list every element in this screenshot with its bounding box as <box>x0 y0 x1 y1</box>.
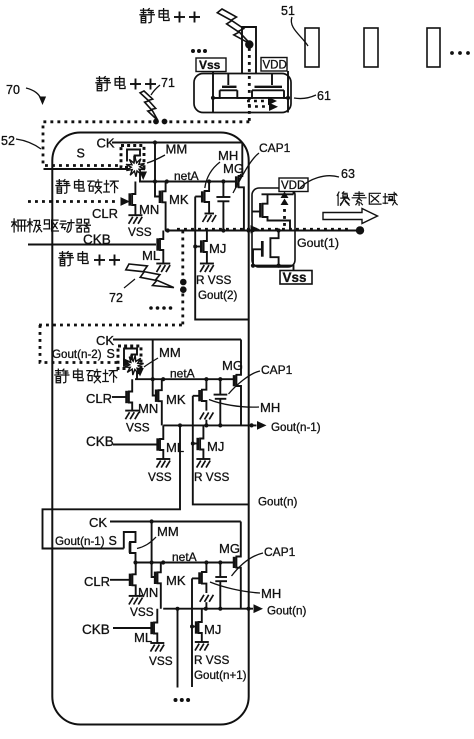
Vss box label <box>196 58 226 72</box>
svg-text:Gout(n+1): Gout(n+1) <box>194 669 247 682</box>
label 70 with curved arrow <box>6 83 46 105</box>
ellipsis dots above Vss box <box>191 49 207 53</box>
ground under MJ stage2 <box>196 458 210 460</box>
ground VSS under MN stage3 <box>129 596 154 619</box>
svg-text:Vss: Vss <box>283 270 307 285</box>
pixel column electrodes 51 <box>305 28 440 67</box>
upper transistor block 63 <box>252 192 294 231</box>
lightning bolt 72 <box>126 264 174 288</box>
ESD dotted path 52 (top rectangle) <box>43 122 249 166</box>
svg-text:MJ: MJ <box>204 622 221 637</box>
transistor ML stage2 <box>160 425 163 458</box>
CK drop wire to MK gate stage1 <box>153 140 160 196</box>
transistor MH stage2 <box>193 379 207 410</box>
transistor MN stage3 <box>132 563 135 596</box>
ground under MJ stage1 <box>200 263 214 265</box>
svg-text:CLR: CLR <box>92 206 118 221</box>
feedback wire to stage3 S <box>43 425 181 548</box>
ESD arrow into netA stage2 <box>136 368 144 377</box>
ground slashes under MH stage1 <box>203 214 217 223</box>
label CAP1 stage2 with leader <box>229 363 293 394</box>
gate driver block outline 70 <box>52 133 248 725</box>
CK wire stage2 <box>113 339 241 341</box>
transistor MM stage3 <box>124 532 136 563</box>
svg-text:MH: MH <box>260 400 280 415</box>
transistor MH stage3 <box>192 563 206 594</box>
label MM stage2 with leader <box>144 345 181 367</box>
feedback wire down from rail stage3 <box>177 609 179 688</box>
capacitor CAP1 stage2 <box>214 379 228 427</box>
svg-text:MM: MM <box>166 142 188 157</box>
CK wire stage3 <box>110 521 241 523</box>
ground slashes under MH stage3 <box>200 595 214 611</box>
output rail stage2 <box>163 423 256 427</box>
CK wire stage1 <box>112 142 242 144</box>
Vss rail wire in block 61 <box>211 72 215 113</box>
ground VSS under MN stage2 <box>125 411 150 435</box>
strike node dot <box>245 40 253 48</box>
svg-text:MN: MN <box>138 585 158 600</box>
net netA stage2 <box>135 367 234 381</box>
label 72 with leader <box>109 279 135 305</box>
svg-text:VSS: VSS <box>148 470 172 484</box>
ESD dotted box around MM stage2 <box>118 346 141 369</box>
net netA stage3 <box>136 550 235 564</box>
transistor ML stage1 <box>160 231 163 264</box>
ESD dotted box around MM stage1 <box>121 146 144 168</box>
hollow arrow to pixel area <box>323 209 378 224</box>
junction dots netA stage3 <box>133 560 222 564</box>
transistor MM stage1 (in dotted box) <box>127 150 140 182</box>
label 61 with leader <box>294 89 331 103</box>
label MM stage1 with leader <box>147 142 187 164</box>
label MH stage3 with leader <box>210 582 281 601</box>
bottom ellipsis <box>174 698 191 702</box>
lower transistor block 63 <box>253 231 279 266</box>
svg-text:VDD: VDD <box>263 60 287 72</box>
ground VSS under MN stage1 <box>128 215 152 239</box>
svg-text:CAP1: CAP1 <box>264 545 296 559</box>
MH/MJ gate feedback wire stage2 <box>191 396 249 505</box>
node row wire in block 61 <box>213 97 290 99</box>
transistor T2 in block 61 <box>247 74 290 98</box>
label 像素区域 (pixel area) <box>337 192 397 206</box>
MJ gate feedback wire stage1 <box>193 197 248 320</box>
output buffer block 63 outline <box>252 188 295 267</box>
svg-text:ML: ML <box>134 630 152 645</box>
svg-text:Gout(n): Gout(n) <box>258 496 297 509</box>
ground slashes under MH stage2 <box>200 412 214 427</box>
capacitor CAP1 stage1 <box>216 182 230 233</box>
svg-text:51: 51 <box>281 4 295 18</box>
svg-text:R VSS: R VSS <box>194 470 230 484</box>
transistor MH stage1 <box>195 182 209 213</box>
label 71 leader <box>151 76 175 95</box>
label 静电破坏 stage1 <box>56 180 118 194</box>
ground under MJ stage3 <box>195 641 209 643</box>
ground VSS under ML stage2 <box>148 459 172 484</box>
CLR wire stage3 <box>110 579 130 581</box>
svg-text:netA: netA <box>170 367 195 381</box>
ESD starburst stage2 <box>124 356 143 375</box>
S input wire stage1 <box>44 168 131 170</box>
svg-text:S: S <box>77 147 85 161</box>
label 静电++ with 71 <box>96 77 156 91</box>
svg-text:52: 52 <box>1 134 15 148</box>
net netA stage1 <box>139 169 236 183</box>
svg-text:63: 63 <box>341 167 355 181</box>
svg-text:CK: CK <box>96 333 114 348</box>
ESD protection block 61 outline <box>194 74 291 113</box>
label: 静电++ (static electricity) top <box>140 9 200 23</box>
svg-text:MG: MG <box>222 358 243 373</box>
VDD rail wire in block 61 <box>286 71 290 113</box>
svg-text:ML: ML <box>142 248 160 263</box>
svg-text:MN: MN <box>138 401 158 416</box>
CK drop to MK gate stage3 <box>150 519 156 577</box>
svg-text:VSS: VSS <box>149 654 173 668</box>
ESD starburst stage1 <box>126 157 145 177</box>
svg-text:Gout(n): Gout(n) <box>267 605 306 618</box>
label CAP1 stage3 with leader <box>232 545 296 576</box>
svg-text:VSS: VSS <box>130 605 154 619</box>
ESD arrow into MM box stage2 <box>123 358 133 367</box>
svg-text:VSS: VSS <box>128 225 152 239</box>
ESD dotted box stage2 left/bottom <box>40 325 117 363</box>
ESD dotted branch to lightning 72 <box>181 231 184 326</box>
label 静电破坏 stage2 <box>55 369 117 383</box>
svg-text:netA: netA <box>174 169 199 183</box>
output arrow Gout(n-1) <box>257 421 321 434</box>
output rail Gout(1) stage1 <box>165 228 356 232</box>
CKB wire stage2 <box>113 444 158 446</box>
svg-text:MM: MM <box>157 524 179 539</box>
svg-text:CAP1: CAP1 <box>261 363 293 377</box>
svg-text:R VSS: R VSS <box>194 653 230 667</box>
transistor MK stage1 <box>162 182 165 231</box>
transistor MG stage1 <box>236 143 244 231</box>
svg-text:ML: ML <box>166 440 184 455</box>
transistor MK stage2 <box>159 379 162 425</box>
label CAP1 stage1 with leader <box>233 141 291 193</box>
ground VSS under ML stage1 <box>156 263 170 265</box>
output arrow Gout(n) <box>254 604 307 617</box>
transistor ML stage3 <box>154 609 157 643</box>
svg-text:CAP1: CAP1 <box>259 141 291 155</box>
ellipsis dots right <box>450 51 470 55</box>
svg-text:72: 72 <box>109 291 123 305</box>
output rail stage3 <box>163 607 253 611</box>
transistor MJ stage3 <box>199 609 202 642</box>
svg-text:R VSS: R VSS <box>196 273 232 287</box>
Vss box label 63 <box>280 270 312 285</box>
strike dots 72 <box>180 279 187 293</box>
svg-text:MG: MG <box>223 161 244 176</box>
label 52 with leader <box>1 134 41 149</box>
label 63 with leader <box>300 167 355 188</box>
ESD dotted CLR line with arrow stage1 <box>28 197 130 206</box>
lightning bolt 71 <box>140 91 158 121</box>
svg-text:S: S <box>107 347 115 361</box>
ESD dotted arrows inside block 61 <box>247 97 278 111</box>
VDD box label <box>261 58 287 72</box>
label MH stage2 with leader <box>209 400 280 416</box>
svg-text:MK: MK <box>166 392 186 407</box>
svg-text:netA: netA <box>172 550 197 564</box>
strike dots on ESD line <box>153 119 167 125</box>
CKB wire stage3 <box>113 627 151 629</box>
ellipsis between stages <box>149 306 172 310</box>
junction dots netA stage1 <box>165 179 226 183</box>
svg-text:MJ: MJ <box>207 439 224 454</box>
label MH stage1 with leader <box>205 148 238 188</box>
Vss bottom wire block 63 <box>251 228 294 271</box>
transistor MN stage1 <box>132 182 135 215</box>
svg-text:Gout(n-1): Gout(n-1) <box>55 535 105 548</box>
svg-text:Vss: Vss <box>199 58 221 72</box>
svg-text:71: 71 <box>161 76 175 90</box>
svg-text:Gout(1): Gout(1) <box>297 236 339 250</box>
svg-text:CK: CK <box>89 515 107 530</box>
transistor T1 in block 61 <box>213 74 246 98</box>
svg-text:CKB: CKB <box>86 434 114 449</box>
svg-text:CLR: CLR <box>86 391 112 406</box>
transistor MJ stage2 <box>200 425 203 458</box>
capacitor CAP1 stage3 <box>215 563 227 611</box>
label MM stage3 with leader <box>137 524 179 549</box>
CK drop to MK gate stage2 <box>151 340 157 396</box>
transistor MJ stage1 <box>204 231 207 264</box>
CKB wire stage1 <box>28 244 156 246</box>
pixel column electrode (struck) <box>242 27 256 74</box>
ESD dotted along Gout(1) with arrow and end dot <box>177 225 364 234</box>
svg-text:Gout(2): Gout(2) <box>198 289 237 302</box>
ESD dotted vertical with up arrows block 63 <box>281 192 289 229</box>
svg-text:VSS: VSS <box>126 421 150 435</box>
CLR wire stage2 <box>112 396 126 398</box>
lightning bolt striking pixel column 51 <box>217 9 250 44</box>
svg-text:61: 61 <box>317 89 331 103</box>
transistor MG stage2 <box>234 340 241 426</box>
transistor MG stage3 <box>234 522 241 609</box>
svg-text:Gout(n-1): Gout(n-1) <box>271 421 321 434</box>
VDD box label 63 <box>279 178 308 192</box>
label 51 with leader <box>281 4 308 46</box>
svg-text:MH: MH <box>261 586 281 601</box>
junction dots netA stage2 <box>161 377 222 381</box>
MH/MJ gate wire stage3 <box>190 578 196 687</box>
svg-text:CLR: CLR <box>84 574 110 589</box>
transistor MK stage3 <box>158 563 161 609</box>
svg-text:MG: MG <box>219 541 240 556</box>
ground VSS under ML stage3 <box>149 643 173 668</box>
svg-text:MM: MM <box>159 345 181 360</box>
svg-text:MJ: MJ <box>209 241 226 256</box>
svg-text:MK: MK <box>166 573 186 588</box>
ESD arrow into netA stage1 <box>139 172 147 181</box>
label MG stage1 with leader <box>223 161 244 179</box>
ESD dotted box stage2 (Gout(n-2) S) <box>39 324 183 327</box>
label 静电++ near 72 <box>59 252 120 266</box>
svg-text:S: S <box>109 534 117 548</box>
label 栅极驱动器 (gate driver) <box>12 219 91 232</box>
svg-text:Gout(n-2): Gout(n-2) <box>52 348 102 361</box>
svg-text:MK: MK <box>169 192 189 207</box>
svg-text:70: 70 <box>6 83 20 97</box>
svg-text:CKB: CKB <box>82 622 110 637</box>
transistor MM stage2 <box>124 349 137 380</box>
ESD dotted path vertical through block 61 <box>248 48 251 122</box>
transistor MN stage2 <box>129 379 132 410</box>
